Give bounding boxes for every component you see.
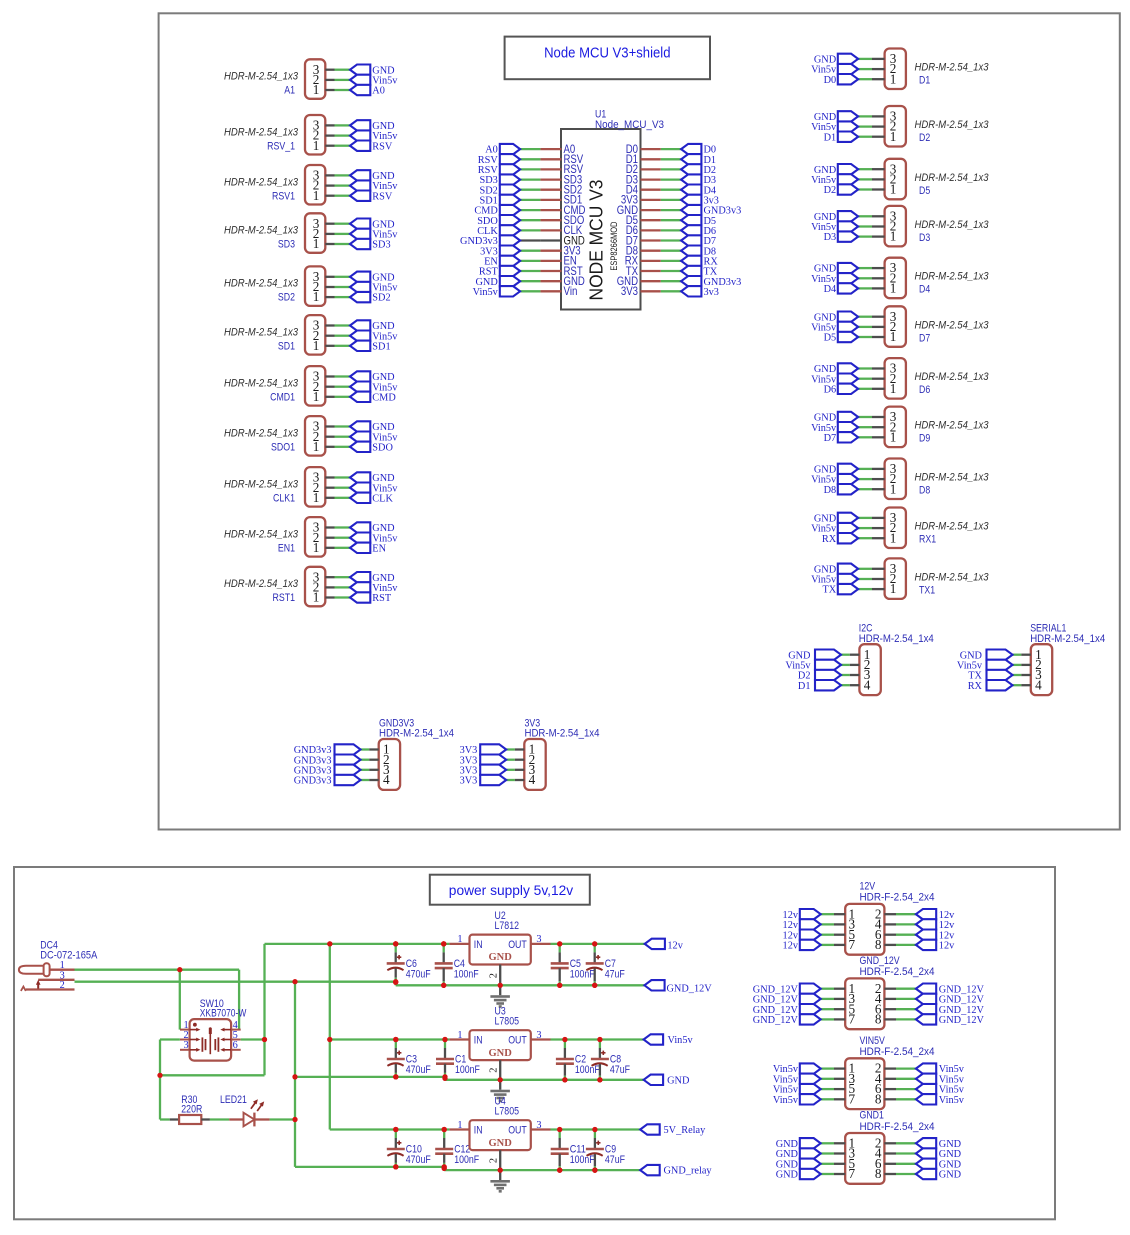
U1 left pin CLK wire from net CLK xyxy=(477,223,582,237)
svg-text:1: 1 xyxy=(313,188,320,203)
svg-text:GND: GND xyxy=(776,1170,799,1181)
connector SDO1 (HDR-M-2.54_1x3) xyxy=(224,416,398,456)
connector D5 (HDR-M-2.54_1x3) xyxy=(811,159,989,200)
wire R30 to LED21 xyxy=(210,1118,229,1120)
connector D2 (HDR-M-2.54_1x3) xyxy=(811,106,989,147)
svg-text:4: 4 xyxy=(383,772,390,787)
U3 pin 1 IN xyxy=(449,1038,469,1040)
U1 left pin SD1 wire from net SD1 xyxy=(479,193,582,207)
wire C6 jog junction xyxy=(395,982,397,986)
GND vertical bus xyxy=(294,982,296,1167)
svg-text:100nF: 100nF xyxy=(454,968,479,980)
svg-text:GND3v3: GND3v3 xyxy=(294,776,332,787)
connector SD1 (HDR-M-2.54_1x3) xyxy=(224,315,398,355)
+12 loop bottom xyxy=(160,1074,265,1076)
svg-text:1: 1 xyxy=(890,129,897,144)
U1 left pin RSV wire from net RSV xyxy=(478,162,583,176)
wire down to SW10 pin4 xyxy=(238,970,240,1030)
svg-text:Vin5v: Vin5v xyxy=(668,1035,694,1046)
svg-text:RST1: RST1 xyxy=(273,592,296,604)
svg-text:RSV_1: RSV_1 xyxy=(267,140,295,152)
connector D3 (HDR-M-2.54_1x3) xyxy=(811,206,989,247)
+12 riser x264 xyxy=(263,944,265,1075)
wire to SW10 pin2 xyxy=(160,1038,180,1040)
svg-text:D1: D1 xyxy=(798,681,811,692)
wire U2 OUT to 12v flag xyxy=(551,943,645,945)
connector DC4 DC-072-165A barrel jack xyxy=(19,940,98,991)
svg-text:D4: D4 xyxy=(919,284,930,296)
svg-text:SD3: SD3 xyxy=(278,239,295,251)
U1 right pin D2 wire to net D2 xyxy=(626,162,716,176)
svg-text:EN1: EN1 xyxy=(278,542,295,554)
switch SW10 XKB7070-W xyxy=(180,998,247,1061)
SW10 right contacts xyxy=(217,1037,219,1051)
U2 pin 3 OUT xyxy=(531,943,551,945)
svg-text:HDR-M-2.54_1x3: HDR-M-2.54_1x3 xyxy=(224,528,299,540)
SW10 contact arrows row 2 xyxy=(190,1039,197,1041)
wire U4 OUT to 5V_Relay flag xyxy=(551,1128,641,1130)
junction row2 IN C1 xyxy=(442,1037,447,1042)
connector SD2 (HDR-M-2.54_1x3) xyxy=(224,266,398,306)
svg-text:1: 1 xyxy=(890,281,897,296)
LED21 emission arrows xyxy=(251,1101,257,1109)
svg-text:470uF: 470uF xyxy=(406,1064,431,1076)
net flag 12v xyxy=(645,939,684,952)
junction GND_12V C7 xyxy=(592,983,597,988)
svg-text:1: 1 xyxy=(313,338,320,353)
capacitor C9 47uF xyxy=(586,1127,625,1173)
svg-text:1: 1 xyxy=(890,229,897,244)
junction +12 rail C6 xyxy=(393,941,398,946)
svg-text:A0: A0 xyxy=(372,86,385,97)
svg-text:HDR-M-2.54_1x3: HDR-M-2.54_1x3 xyxy=(224,71,299,83)
junction loop left xyxy=(157,1073,162,1078)
SW10 contact arrows row 1 xyxy=(190,1029,197,1031)
U1 left pin RSV wire from net RSV xyxy=(478,152,583,166)
svg-text:RX1: RX1 xyxy=(919,534,936,546)
SW10 pin 3 stub xyxy=(180,1049,190,1051)
U1 right pin D6 wire to net D6 xyxy=(626,223,716,237)
connector D9 (HDR-M-2.54_1x3) xyxy=(811,407,989,448)
svg-text:RSV: RSV xyxy=(372,191,393,202)
net flag Vin5v out xyxy=(644,1034,694,1046)
U4 pin 2 GND xyxy=(499,1150,501,1170)
+12 feed riser x330 xyxy=(329,944,331,1130)
svg-text:L7805: L7805 xyxy=(495,1106,520,1118)
junction GND bus row2 xyxy=(292,1074,297,1079)
wire down to SW10 pin1 xyxy=(179,970,181,1030)
DC4 pin 1 (center pin) xyxy=(50,969,75,971)
wire C12 jog xyxy=(443,1167,445,1170)
U1 left pin SD3 wire from net SD3 xyxy=(479,172,582,186)
regulator U2 L7812 xyxy=(449,910,550,1008)
DC4 pin 2 (switch) xyxy=(26,988,75,990)
U1 right pin RX wire to net RX xyxy=(625,254,719,268)
junction on +12 jack wire xyxy=(177,967,182,972)
connector SD3 (HDR-M-2.54_1x3) xyxy=(224,213,398,253)
svg-text:HDR-M-2.54_1x4: HDR-M-2.54_1x4 xyxy=(379,728,454,740)
U2 pin 1 IN xyxy=(449,943,469,945)
junction +12 rail C4 xyxy=(441,941,446,946)
connector GND3V3 (HDR-M-2.54_1x4) xyxy=(294,717,454,790)
svg-text:3V3: 3V3 xyxy=(621,284,638,298)
wire LED21 to GND bus xyxy=(270,1118,295,1120)
svg-text:SD3: SD3 xyxy=(372,240,390,251)
svg-text:D2: D2 xyxy=(919,132,930,144)
svg-text:A1: A1 xyxy=(284,85,295,97)
svg-text:8: 8 xyxy=(875,937,882,952)
svg-text:1: 1 xyxy=(890,71,897,86)
svg-text:1: 1 xyxy=(313,439,320,454)
junction row3 GND C9 xyxy=(592,1168,597,1173)
svg-text:HDR-M-2.54_1x3: HDR-M-2.54_1x3 xyxy=(224,126,299,138)
connector GND1 (HDR-F-2.54_2x4) xyxy=(776,1110,962,1184)
U1 right pin 3V3 wire to net 3v3 xyxy=(621,284,719,298)
svg-text:4: 4 xyxy=(529,772,536,787)
svg-text:1: 1 xyxy=(313,138,320,153)
svg-text:HDR-M-2.54_1x3: HDR-M-2.54_1x3 xyxy=(915,319,990,331)
svg-text:HDR-M-2.54_1x3: HDR-M-2.54_1x3 xyxy=(224,478,299,490)
capacitor C5 100nF xyxy=(551,941,595,988)
junction dot overlay xyxy=(157,941,602,1172)
capacitor C10 470uF xyxy=(387,1127,431,1170)
connector GND_12V (HDR-F-2.54_2x4) xyxy=(753,955,985,1029)
svg-text:12v: 12v xyxy=(939,941,955,952)
U3 GND rail xyxy=(445,1079,644,1081)
svg-text:RX: RX xyxy=(968,681,983,692)
svg-text:HDR-M-2.54_1x4: HDR-M-2.54_1x4 xyxy=(525,728,600,740)
svg-text:3: 3 xyxy=(183,1040,188,1051)
svg-text:1: 1 xyxy=(890,481,897,496)
U1 left pin GND wire from net GND3v3 xyxy=(460,233,585,247)
svg-text:DC-072-165A: DC-072-165A xyxy=(40,949,98,961)
SW10 contact arrows row 3 xyxy=(190,1049,197,1051)
wire +12 from DC4 pin1 xyxy=(75,969,240,971)
svg-text:1: 1 xyxy=(313,590,320,605)
U1 right pin D5 wire to net D5 xyxy=(626,213,716,227)
svg-text:D1: D1 xyxy=(824,132,837,143)
svg-text:2: 2 xyxy=(60,980,65,991)
connector D1 (HDR-M-2.54_1x3) xyxy=(811,49,989,90)
junction GND to vertical bus xyxy=(292,979,297,984)
regulator U4 L7805 xyxy=(449,1096,550,1193)
svg-text:LED21: LED21 xyxy=(220,1094,247,1106)
svg-text:D3: D3 xyxy=(919,232,930,244)
DC4 pin 3 (sleeve) xyxy=(38,979,74,981)
svg-text:GND_12V: GND_12V xyxy=(667,983,713,994)
connector D8 (HDR-M-2.54_1x3) xyxy=(811,459,989,500)
svg-text:HDR-M-2.54_1x3: HDR-M-2.54_1x3 xyxy=(224,377,299,389)
svg-text:1: 1 xyxy=(313,289,320,304)
svg-text:HDR-F-2.54_2x4: HDR-F-2.54_2x4 xyxy=(860,1121,935,1133)
svg-text:D0: D0 xyxy=(824,75,837,86)
svg-text:D7: D7 xyxy=(919,332,930,344)
connector RST1 (HDR-M-2.54_1x3) xyxy=(224,567,398,607)
svg-text:1: 1 xyxy=(313,490,320,505)
U1 right pin D0 wire to net D0 xyxy=(626,142,716,156)
U4 pin 1 IN xyxy=(449,1128,469,1130)
svg-text:IN: IN xyxy=(474,1124,483,1136)
SW10 pin 4 stub xyxy=(231,1029,241,1031)
U1 right pin D3 wire to net D3 xyxy=(626,172,716,186)
connector VIN5V (HDR-F-2.54_2x4) xyxy=(773,1035,965,1109)
svg-text:NODE MCU V3: NODE MCU V3 xyxy=(586,180,606,301)
svg-text:1: 1 xyxy=(890,381,897,396)
U1 left pin A0 wire from net A0 xyxy=(485,142,575,156)
svg-text:GND_12V: GND_12V xyxy=(939,1015,985,1026)
svg-text:HDR-M-2.54_1x3: HDR-M-2.54_1x3 xyxy=(224,176,299,188)
connector I2C (HDR-M-2.54_1x4) xyxy=(785,623,933,696)
DC4 switch arrow xyxy=(37,983,39,989)
svg-text:HDR-M-2.54_1x3: HDR-M-2.54_1x3 xyxy=(915,119,990,131)
ground symbol xyxy=(490,1170,510,1193)
svg-text:1: 1 xyxy=(890,329,897,344)
U4 GND rail xyxy=(444,1169,640,1171)
U4 pin 3 OUT xyxy=(531,1128,551,1130)
U1 right pin 3V3 wire to net 3v3 xyxy=(621,193,719,207)
svg-text:8: 8 xyxy=(875,1012,882,1027)
svg-text:3v3: 3v3 xyxy=(704,287,719,298)
SW10 pin 2 stub xyxy=(180,1039,190,1041)
U1 right pin D1 wire to net D1 xyxy=(626,152,716,166)
capacitor C1 100nF xyxy=(436,1037,480,1080)
svg-text:L7805: L7805 xyxy=(495,1016,520,1028)
svg-text:220R: 220R xyxy=(181,1103,202,1115)
svg-text:3: 3 xyxy=(536,1030,541,1041)
svg-text:CLK1: CLK1 xyxy=(273,492,295,504)
svg-text:D6: D6 xyxy=(919,384,930,396)
svg-text:IN: IN xyxy=(474,939,483,951)
wire SW10 pin5 to +12 rail riser xyxy=(241,1038,265,1040)
svg-text:HDR-M-2.54_1x3: HDR-M-2.54_1x3 xyxy=(915,62,990,74)
U3 pin 3 OUT xyxy=(531,1038,551,1040)
svg-text:GND: GND xyxy=(939,1170,962,1181)
U1 left pin 3V3 wire from net 3V3 xyxy=(480,244,581,258)
wire GND from DC4 pin3 xyxy=(75,981,396,983)
svg-text:Vin5v: Vin5v xyxy=(473,287,499,298)
svg-text:2: 2 xyxy=(489,1158,500,1163)
svg-text:1: 1 xyxy=(890,429,897,444)
capacitor C12 100nF xyxy=(435,1127,479,1170)
connector RX1 (HDR-M-2.54_1x3) xyxy=(811,508,989,549)
svg-text:1: 1 xyxy=(313,236,320,251)
title box: Node MCU V3+shield xyxy=(505,37,710,80)
svg-text:SD1: SD1 xyxy=(278,340,295,352)
SW10 pin 5 stub xyxy=(231,1039,241,1041)
svg-text:Node_MCU_V3: Node_MCU_V3 xyxy=(595,119,664,131)
svg-text:12v: 12v xyxy=(783,941,799,952)
connector D4 (HDR-M-2.54_1x3) xyxy=(811,258,989,299)
U1 right pin D4 wire to net D4 xyxy=(626,183,716,197)
svg-text:470uF: 470uF xyxy=(406,1154,431,1166)
U3 pin 2 GND xyxy=(499,1060,501,1080)
net flag GND_relay xyxy=(640,1165,712,1177)
svg-text:1: 1 xyxy=(457,1120,462,1131)
U1 right pin GND wire to net GND3v3 xyxy=(617,203,742,217)
svg-text:7: 7 xyxy=(849,1166,856,1181)
svg-text:HDR-M-2.54_1x3: HDR-M-2.54_1x3 xyxy=(224,278,299,290)
svg-text:CMD1: CMD1 xyxy=(270,391,295,403)
svg-text:GND_relay: GND_relay xyxy=(664,1166,713,1177)
capacitor C3 470uF xyxy=(387,1037,431,1080)
U1 left pin EN wire from net EN xyxy=(484,254,577,268)
svg-text:47uF: 47uF xyxy=(610,1064,630,1076)
svg-text:HDR-M-2.54_1x3: HDR-M-2.54_1x3 xyxy=(224,427,299,439)
wire C1 jog xyxy=(444,1077,446,1080)
svg-text:HDR-M-2.54_1x3: HDR-M-2.54_1x3 xyxy=(915,219,990,231)
ground symbol xyxy=(490,1080,510,1102)
svg-text:TX: TX xyxy=(822,585,836,596)
svg-text:HDR-M-2.54_1x3: HDR-M-2.54_1x3 xyxy=(915,571,990,583)
svg-text:HDR-M-2.54_1x3: HDR-M-2.54_1x3 xyxy=(915,371,990,383)
connector TX1 (HDR-M-2.54_1x3) xyxy=(811,558,989,599)
svg-text:SD2: SD2 xyxy=(372,293,390,304)
junction GND_12V C5 xyxy=(557,983,562,988)
svg-text:1: 1 xyxy=(313,540,320,555)
SW10 left contacts xyxy=(201,1037,203,1051)
svg-text:GND_12V: GND_12V xyxy=(860,955,901,967)
svg-text:SDO1: SDO1 xyxy=(271,441,295,453)
svg-text:RX: RX xyxy=(822,534,837,545)
U2 pin 2 GND xyxy=(499,965,501,986)
loop left riser to SW10 pin2 xyxy=(159,1040,161,1076)
connector SERIAL1 (HDR-M-2.54_1x4) xyxy=(957,623,1105,696)
svg-text:SD2: SD2 xyxy=(278,292,295,304)
SW10 lever xyxy=(209,1027,211,1054)
U1 left pin SD2 wire from net SD2 xyxy=(479,183,582,197)
net flag GND_12V xyxy=(644,980,712,994)
svg-text:2: 2 xyxy=(489,973,500,978)
connector RSV_1 (HDR-M-2.54_1x3) xyxy=(224,115,398,155)
junction +12/V6 xyxy=(327,941,332,946)
svg-text:100nF: 100nF xyxy=(454,1154,479,1166)
junction row2 IN C3 xyxy=(393,1037,398,1042)
SW10 pin 6 stub xyxy=(231,1049,241,1051)
svg-text:Vin5v: Vin5v xyxy=(773,1095,799,1106)
svg-text:EN: EN xyxy=(372,543,386,554)
svg-text:8: 8 xyxy=(875,1091,882,1106)
ground symbol xyxy=(490,985,510,1008)
svg-text:HDR-M-2.54_1x3: HDR-M-2.54_1x3 xyxy=(224,326,299,338)
LED LED21 xyxy=(220,1094,270,1127)
GND_12V rail xyxy=(396,984,645,986)
svg-text:HDR-F-2.54_2x4: HDR-F-2.54_2x4 xyxy=(860,1046,935,1058)
U1 left pin RST wire from net RST xyxy=(479,264,583,278)
svg-text:D9: D9 xyxy=(919,433,930,445)
junction row3 IN C12 xyxy=(442,1127,447,1132)
title box: power supply 5v,12v xyxy=(430,875,590,905)
svg-text:1: 1 xyxy=(457,1030,462,1041)
junction row3 C10 xyxy=(393,1164,398,1169)
resistor R30 220R xyxy=(170,1094,210,1124)
svg-text:HDR-M-2.54_1x3: HDR-M-2.54_1x3 xyxy=(915,271,990,283)
svg-text:1: 1 xyxy=(890,581,897,596)
op-amp U1 Node_MCU_V3 (NODE MCU V3 module) xyxy=(561,109,664,310)
svg-text:3: 3 xyxy=(536,1120,541,1131)
svg-text:1: 1 xyxy=(313,82,320,97)
svg-text:HDR-M-2.54_1x3: HDR-M-2.54_1x3 xyxy=(915,521,990,533)
svg-text:4: 4 xyxy=(864,677,871,692)
svg-text:CLK: CLK xyxy=(372,493,393,504)
junction row2 C3 xyxy=(393,1074,398,1079)
svg-text:RSV1: RSV1 xyxy=(272,190,295,202)
svg-text:ESP8266MOD: ESP8266MOD xyxy=(609,221,619,270)
svg-text:OUT: OUT xyxy=(508,1034,527,1046)
U1 right pin D7 wire to net D7 xyxy=(626,233,716,247)
svg-text:100nF: 100nF xyxy=(455,1064,480,1076)
svg-text:12V: 12V xyxy=(860,880,876,892)
frame: Node MCU sheet border xyxy=(159,13,1120,829)
connector 12V (HDR-F-2.54_2x4) xyxy=(783,880,956,954)
svg-text:D3: D3 xyxy=(824,232,837,243)
svg-text:GND1: GND1 xyxy=(860,1110,884,1122)
svg-text:HDR-M-2.54_1x4: HDR-M-2.54_1x4 xyxy=(859,633,934,645)
wire down to R30 xyxy=(159,1075,161,1119)
svg-text:D6: D6 xyxy=(824,384,837,395)
svg-text:1: 1 xyxy=(457,934,462,945)
capacitor C6 470uF xyxy=(387,941,431,984)
capacitor C7 47uF xyxy=(586,941,625,988)
svg-text:6: 6 xyxy=(233,1040,238,1051)
connector RSV1 (HDR-M-2.54_1x3) xyxy=(224,165,398,205)
U1 right pin GND wire to net GND3v3 xyxy=(617,274,742,288)
U1 right pin TX wire to net TX xyxy=(626,264,718,278)
U4 IN rail xyxy=(330,1128,450,1130)
svg-text:100nF: 100nF xyxy=(570,1154,595,1166)
svg-text:HDR-F-2.54_2x4: HDR-F-2.54_2x4 xyxy=(860,966,935,978)
svg-text:12v: 12v xyxy=(667,940,683,951)
svg-text:SD1: SD1 xyxy=(372,341,390,352)
junction row2 GND C8 xyxy=(597,1077,602,1082)
svg-text:HDR-M-2.54_1x4: HDR-M-2.54_1x4 xyxy=(1030,633,1105,645)
svg-text:7: 7 xyxy=(849,937,856,952)
svg-text:GND: GND xyxy=(489,952,513,963)
svg-text:D7: D7 xyxy=(824,433,837,444)
connector A1 (HDR-M-2.54_1x3) xyxy=(224,59,398,99)
svg-text:RST: RST xyxy=(372,593,392,604)
U3 GND left segment xyxy=(295,1076,445,1078)
svg-text:2: 2 xyxy=(489,1068,500,1073)
svg-text:5V_Relay: 5V_Relay xyxy=(664,1125,707,1136)
connector D7 (HDR-M-2.54_1x3) xyxy=(811,306,989,347)
svg-text:GND_12V: GND_12V xyxy=(753,1015,799,1026)
svg-text:3: 3 xyxy=(536,934,541,945)
junction V6 row2 xyxy=(327,1037,332,1042)
svg-text:HDR-M-2.54_1x3: HDR-M-2.54_1x3 xyxy=(915,172,990,184)
svg-text:VIN5V: VIN5V xyxy=(860,1035,886,1047)
svg-text:47uF: 47uF xyxy=(605,968,625,980)
U1 left pin GND wire from net GND xyxy=(475,274,585,288)
svg-text:4: 4 xyxy=(1035,677,1042,692)
svg-text:IN: IN xyxy=(474,1034,483,1046)
svg-text:L7812: L7812 xyxy=(495,920,520,932)
svg-text:7: 7 xyxy=(849,1091,856,1106)
svg-text:470uF: 470uF xyxy=(406,968,431,980)
svg-text:D2: D2 xyxy=(824,185,837,196)
+12 top rail xyxy=(265,943,450,945)
svg-text:HDR-M-2.54_1x3: HDR-M-2.54_1x3 xyxy=(915,472,990,484)
svg-text:D8: D8 xyxy=(824,485,837,496)
svg-text:D5: D5 xyxy=(824,333,837,344)
junction pin5 riser xyxy=(262,1037,267,1042)
svg-text:Node MCU V3+shield: Node MCU V3+shield xyxy=(544,45,670,62)
junction row2 GND C2 xyxy=(562,1077,567,1082)
capacitor C4 100nF xyxy=(435,941,479,988)
svg-text:100nF: 100nF xyxy=(570,968,595,980)
junction GND bus LED xyxy=(292,1117,297,1122)
svg-text:47uF: 47uF xyxy=(605,1154,625,1166)
wire into R30 xyxy=(160,1118,170,1120)
